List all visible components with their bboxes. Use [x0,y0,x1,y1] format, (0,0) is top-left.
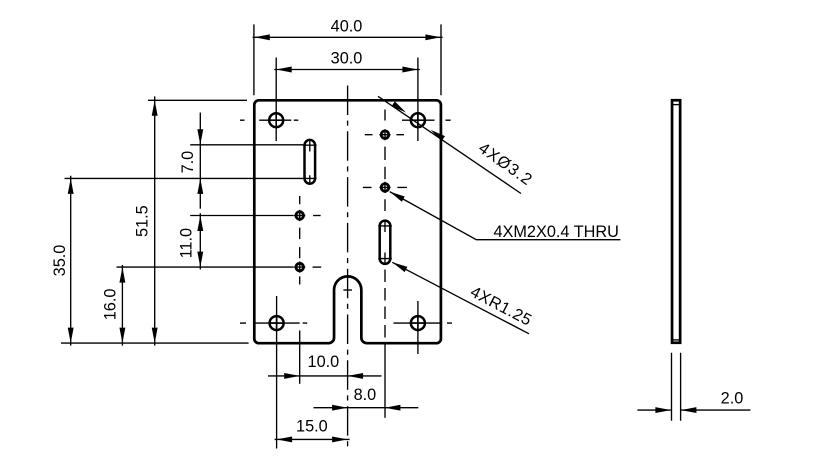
dimension 8.0 line [314,407,419,409]
extension line y=267.1 [117,266,294,268]
dimension 10.0 line [268,375,382,377]
hole M2 left-2 [296,263,304,271]
svg-text:10.0: 10.0 [308,353,340,371]
side view outline [672,100,680,343]
hole TL (Ø3.2) [269,113,283,127]
dimension 2.0 line [637,409,750,411]
dimension 15.0 line [275,438,350,440]
hole BL horizontal centerline [240,322,307,324]
dimension 30.0 extension lines (through top holes) [276,58,418,142]
left small-hole column extension below plate [299,331,301,384]
dimension 11.0 line [199,213,201,269]
bottom extension line y=343.1 [61,342,249,344]
dimension 2.0 extension lines [672,353,681,421]
slot left (R1.25) [305,140,316,184]
side view inner edge top [672,104,680,106]
hole TR horizontal centerline [402,119,451,121]
right column centerline dashed lower [384,270,386,338]
main vertical centerline [347,86,349,449]
slot right (R1.25) [380,221,391,264]
svg-text:4XM2X0.4 THRU: 4XM2X0.4 THRU [493,223,618,241]
dimension 40.0 line [253,36,443,38]
dimension 51.5 line [154,96,156,345]
side view inner edge bottom [672,339,680,341]
svg-text:4XØ3.2: 4XØ3.2 [475,139,536,189]
left small-hole column centerline dashed [299,196,301,285]
notch center cross [343,289,352,291]
plate front view outline with bottom U-notch [254,100,441,343]
svg-text:16.0: 16.0 [102,289,120,321]
svg-text:15.0: 15.0 [296,417,328,435]
hole TL horizontal centerline [240,119,298,121]
hole BL vertical centerline / extension [276,296,278,449]
dimension 7.0 line [199,113,201,209]
dimension 16.0 line [121,265,123,346]
hole M2 right-1 [381,131,389,139]
svg-text:30.0: 30.0 [331,49,363,67]
leader 4XØ3.2 line [378,96,521,193]
extension line y=144.8 (slot top) [190,144,303,146]
hole BL (Ø3.2) [270,316,284,330]
svg-text:8.0: 8.0 [354,386,377,404]
slot right crosshairs [378,220,392,265]
dimension 30.0 line [274,69,420,71]
leader 4XR1.25 line [392,262,529,334]
right column centerline dashed upper [384,110,386,212]
hole M2 left-1 [296,212,304,220]
leader 4XM2X0.4 THRU line [390,192,621,240]
dimension 35.0 line [70,176,72,346]
extension line y=178.4 (slot bottom) [65,177,304,179]
svg-text:51.5: 51.5 [134,205,152,237]
svg-text:2.0: 2.0 [721,389,744,407]
hole BR (Ø3.2) [411,316,425,330]
dimension 51.5 top extension [148,99,247,101]
hole TR (Ø3.2) [411,113,425,127]
dimension 40.0 extension lines [254,24,441,95]
hole BR horizontal centerline [394,322,453,324]
extension line y=215.5 [190,215,294,217]
hole M2 right-2 [381,184,389,192]
svg-text:35.0: 35.0 [51,245,69,277]
slot left crosshairs [303,139,317,185]
svg-text:40.0: 40.0 [331,17,363,35]
svg-text:7.0: 7.0 [179,151,197,174]
right column extension below plate [384,343,386,418]
hole BR vertical centerline [417,301,419,354]
svg-text:11.0: 11.0 [178,228,196,258]
